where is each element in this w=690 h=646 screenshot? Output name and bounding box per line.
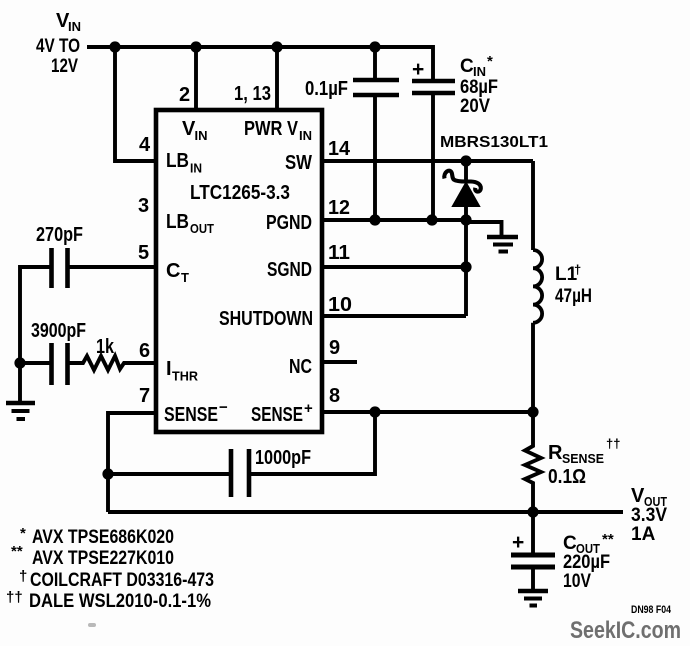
svg-text:*: *: [487, 53, 493, 70]
wire VOUT line: [108, 510, 623, 514]
svg-text:LB: LB: [166, 150, 189, 172]
svg-text:12V: 12V: [51, 56, 78, 77]
svg-text:6: 6: [139, 340, 150, 362]
svg-text:NC: NC: [289, 356, 312, 378]
resistor 1k: [68, 336, 157, 370]
svg-text:C: C: [563, 533, 577, 554]
scan smudge: [88, 623, 96, 627]
svg-text:220µF: 220µF: [563, 552, 610, 573]
svg-text:SW: SW: [285, 152, 312, 174]
svg-text:12: 12: [328, 197, 350, 219]
wire VIN rail: [87, 47, 433, 81]
svg-text:††: ††: [6, 589, 23, 606]
svg-text:SHUTDOWN: SHUTDOWN: [219, 308, 313, 330]
inductor L1 47uH: [533, 250, 592, 323]
ground (right of diode): [487, 237, 518, 252]
notes (bottom left): [6, 525, 214, 612]
wire pin 9 NC stub: [322, 360, 357, 364]
capacitor CIN electrolytic: [412, 53, 498, 117]
svg-text:LB: LB: [166, 211, 189, 233]
svg-text:3.3V: 3.3V: [631, 505, 667, 526]
svg-text:C: C: [460, 56, 474, 77]
wire 1000pF left link: [108, 472, 229, 476]
junction VIN rail / 0.1uF wire: [369, 41, 380, 52]
resistor RSENSE 0.1 ohm: [525, 412, 620, 512]
diode MBRS130LT1 (Schottky): [440, 134, 548, 220]
svg-text:LTC1265-3.3: LTC1265-3.3: [190, 182, 290, 204]
svg-text:SGND: SGND: [267, 259, 312, 281]
wire VIN to pin 2: [194, 47, 198, 110]
svg-text:1A: 1A: [631, 524, 656, 545]
IC internal labels: [164, 118, 313, 426]
wire VIN to pins 1,13: [275, 47, 279, 110]
svg-text:20V: 20V: [460, 96, 490, 117]
svg-text:AVX TPSE227K010: AVX TPSE227K010: [32, 548, 174, 569]
svg-text:8: 8: [329, 385, 340, 407]
capacitor 270pF: [36, 224, 83, 288]
svg-text:10: 10: [328, 294, 352, 316]
wire pin 10 SHUTDOWN line: [322, 314, 466, 318]
svg-text:+: +: [304, 400, 313, 417]
svg-text:IN: IN: [195, 128, 208, 143]
svg-text:3: 3: [138, 195, 149, 217]
junction SENSE+ / L1: [527, 406, 538, 417]
op-amp U1 LTC1265-3.3 IC body: [156, 110, 322, 432]
junction VOUT / RSENSE: [527, 506, 538, 517]
svg-text:4: 4: [139, 134, 151, 156]
wire L1 bottom to SENSE+ line: [531, 323, 535, 412]
wire pin 8 SENSE+ line: [322, 410, 533, 414]
junction diode / PGND: [460, 214, 471, 225]
svg-text:PGND: PGND: [266, 212, 312, 234]
svg-text:−: −: [219, 399, 228, 416]
junction SGND / vertical: [460, 261, 471, 272]
svg-text:3900pF: 3900pF: [31, 320, 86, 342]
svg-text:2: 2: [179, 84, 190, 106]
svg-text:††: ††: [606, 436, 620, 451]
svg-text:+: +: [412, 58, 424, 81]
wire SW corner down to L1: [531, 161, 535, 250]
node VOUT labels: [631, 485, 667, 545]
junction VIN rail / pin4 wire: [109, 41, 120, 52]
svg-text:270pF: 270pF: [36, 224, 83, 246]
junction VIN rail / pin1,13 wire: [271, 41, 282, 52]
svg-text:5: 5: [138, 242, 149, 264]
pin number labels: [138, 83, 352, 407]
junction PGND / 0.1uF: [369, 214, 380, 225]
svg-text:†: †: [574, 262, 581, 277]
wire diode bottom down to SHUTDOWN: [464, 220, 468, 316]
svg-text:†: †: [19, 568, 27, 585]
wire pin 14 SW line: [322, 159, 533, 163]
svg-text:COILCRAFT D03316-473: COILCRAFT D03316-473: [30, 570, 214, 591]
wire 0.1uF bottom to PGND line: [373, 95, 377, 220]
node VIN input labels: [36, 10, 81, 77]
junction left rail / ITHR: [14, 357, 25, 368]
svg-text:1k: 1k: [96, 336, 115, 358]
wire VIN rail to 0.1uF cap: [373, 47, 377, 80]
wire pin 5 CT line: [68, 265, 157, 269]
svg-text:0.1µF: 0.1µF: [305, 78, 348, 100]
svg-text:MBRS130LT1: MBRS130LT1: [440, 134, 548, 151]
svg-text:SeekIC.com: SeekIC.com: [570, 617, 681, 644]
svg-text:DALE WSL2010-0.1-1%: DALE WSL2010-0.1-1%: [29, 591, 211, 612]
svg-text:IN: IN: [68, 19, 81, 34]
svg-text:0.1Ω: 0.1Ω: [548, 466, 586, 488]
svg-text:1000pF: 1000pF: [255, 447, 311, 469]
svg-text:14: 14: [328, 138, 351, 160]
svg-text:R: R: [548, 442, 563, 464]
svg-text:IN: IN: [190, 161, 202, 176]
svg-text:1, 13: 1, 13: [234, 83, 271, 105]
capacitor 3900pF: [31, 320, 86, 385]
svg-text:+: +: [512, 531, 524, 554]
svg-text:OUT: OUT: [190, 221, 214, 236]
svg-text:68µF: 68µF: [460, 77, 498, 98]
ground (left, below CT network): [6, 403, 35, 419]
capacitor 0.1uF: [305, 78, 399, 100]
wire VIN to pin 4: [115, 47, 156, 161]
ground (below COUT): [518, 591, 548, 606]
capacitor 1000pF: [231, 447, 311, 497]
wire 1000pF right link up to SENSE+: [249, 412, 375, 474]
svg-text:**: **: [602, 531, 614, 548]
svg-text:PWR V: PWR V: [244, 118, 299, 140]
junction VIN rail / pin2 wire: [190, 41, 201, 52]
wire pin 7 SENSE-: [108, 413, 156, 512]
wire VOUT down to COUT: [531, 512, 535, 553]
wire diode junction to ground: [466, 222, 502, 235]
svg-text:7: 7: [139, 385, 150, 407]
svg-text:9: 9: [329, 337, 340, 359]
wire CIN bottom to PGND line: [431, 93, 435, 220]
svg-text:V: V: [631, 485, 645, 507]
junction SENSE- rail / 1000pF: [102, 468, 113, 479]
wire pin 12 PGND line: [322, 218, 466, 222]
junction SENSE+ / 1000pF riser: [369, 406, 380, 417]
wire pin 11 SGND line: [322, 265, 466, 269]
svg-text:4V TO: 4V TO: [36, 36, 80, 57]
svg-text:SENSE: SENSE: [251, 404, 303, 426]
junction PGND / CIN: [426, 214, 437, 225]
svg-text:SENSE: SENSE: [562, 451, 604, 466]
svg-text:DN98 F04: DN98 F04: [631, 604, 672, 616]
svg-text:AVX TPSE686K020: AVX TPSE686K020: [32, 527, 174, 548]
svg-text:SENSE: SENSE: [164, 404, 218, 426]
svg-text:*: *: [20, 525, 26, 542]
svg-text:C: C: [166, 260, 180, 282]
svg-text:IN: IN: [299, 128, 312, 143]
capacitor COUT electrolytic: [511, 531, 614, 592]
svg-text:47µH: 47µH: [555, 286, 592, 307]
svg-text:T: T: [181, 270, 189, 285]
wire COUT to ground: [531, 567, 535, 590]
svg-text:I: I: [166, 358, 172, 380]
svg-text:THR: THR: [172, 369, 199, 384]
svg-text:11: 11: [328, 242, 350, 264]
wire left rail to 3900pF: [20, 361, 52, 365]
svg-text:**: **: [11, 543, 23, 560]
svg-text:10V: 10V: [563, 571, 591, 592]
